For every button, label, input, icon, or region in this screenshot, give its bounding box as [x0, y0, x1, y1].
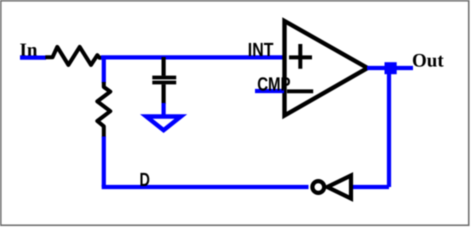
minus input marker — [287, 89, 313, 93]
svg-text:INT: INT — [248, 40, 274, 61]
wire left vertical — [102, 137, 106, 188]
plus input marker — [289, 44, 312, 69]
wire bottom (net D) — [102, 185, 309, 189]
capacitor C1 top lead — [162, 57, 166, 76]
ground lead — [162, 103, 166, 115]
wire In stub — [20, 55, 46, 59]
wire junction down — [102, 57, 106, 83]
ground symbol — [146, 117, 181, 131]
inverter U2 triangle — [327, 176, 351, 199]
op-amp U1 (comparator) — [285, 21, 368, 116]
wire right vertical — [387, 74, 391, 187]
resistor R2 (vertical) — [97, 82, 110, 137]
inverter U2 bubble — [312, 181, 324, 193]
svg-text:CMP: CMP — [257, 75, 291, 96]
wire output — [367, 66, 413, 70]
wire bottom right — [353, 185, 389, 189]
svg-text:Out: Out — [412, 51, 444, 72]
svg-text:D: D — [140, 170, 150, 191]
capacitor C1 plates — [152, 78, 176, 83]
resistor R1 (series input) — [45, 47, 103, 65]
node Out (junction square) — [385, 62, 397, 74]
capacitor C1 bottom lead — [162, 84, 166, 104]
wire CMP stub — [255, 89, 284, 93]
wire main top (net INT) — [101, 55, 284, 59]
